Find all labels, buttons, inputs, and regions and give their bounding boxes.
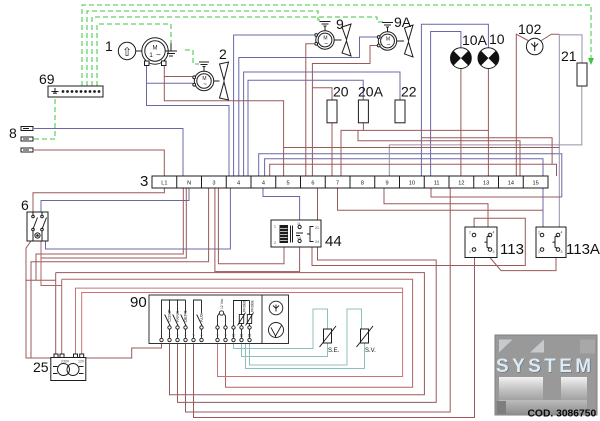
wire strip 4 up to heater 20A bbox=[248, 80, 363, 176]
svg-text:DEFR: DEFR bbox=[183, 311, 188, 322]
svg-text:3: 3 bbox=[561, 250, 563, 254]
fan blades motor 9 bbox=[334, 24, 351, 56]
wire strip 9 to relay 113 t4 bbox=[384, 188, 488, 233]
wire transformer 230N long run to board t9 bbox=[62, 279, 413, 387]
svg-text:L1: L1 bbox=[161, 181, 167, 187]
svg-text:2: 2 bbox=[274, 241, 276, 245]
svg-text:12: 12 bbox=[248, 334, 252, 338]
board contact circles bbox=[168, 326, 251, 329]
wire relay 113 t3 diagonal to 113A bbox=[490, 258, 556, 271]
board pad digits bbox=[161, 334, 252, 338]
svg-text:9A: 9A bbox=[394, 14, 412, 30]
svg-text:1: 1 bbox=[149, 52, 153, 59]
svg-text:2: 2 bbox=[538, 231, 540, 235]
wire strip 4b to relay 113 t4 bbox=[259, 154, 562, 197]
board bus comp fans defr bbox=[162, 300, 186, 338]
transformer 25 bbox=[51, 354, 86, 381]
blue wires bbox=[34, 24, 562, 249]
relay 113 bbox=[465, 227, 497, 258]
wire N drop left a bbox=[36, 188, 183, 280]
svg-text:10: 10 bbox=[409, 181, 415, 187]
svg-text:9: 9 bbox=[386, 181, 389, 187]
board bus aux bbox=[194, 300, 202, 338]
svg-text:~: ~ bbox=[203, 81, 207, 88]
wire lamp 10 top to strip 11 bbox=[421, 24, 488, 176]
terminal strip 3 bbox=[152, 176, 548, 188]
wire switch 6 left pole down to board 90 t1 bbox=[26, 241, 162, 358]
svg-text:8: 8 bbox=[217, 334, 219, 338]
arrow tip of ground wire right bbox=[588, 58, 594, 65]
svg-text:1: 1 bbox=[538, 250, 540, 254]
svg-text:69: 69 bbox=[39, 71, 55, 87]
wire ground bus 4 to motor 1 bbox=[97, 24, 171, 86]
svg-text:1: 1 bbox=[274, 225, 276, 229]
svg-text:12: 12 bbox=[458, 181, 464, 187]
ground symbol motor 9A bbox=[382, 23, 393, 33]
svg-text:12 Vac: 12 Vac bbox=[220, 298, 224, 309]
svg-text:21: 21 bbox=[561, 48, 577, 64]
svg-text:AUX: AUX bbox=[199, 313, 204, 322]
svg-text:4: 4 bbox=[237, 181, 240, 187]
wire strip 4 up to motor 9 bbox=[234, 35, 315, 176]
ground symbol motor 1 bbox=[165, 43, 182, 56]
wire L1 down to switch 6 bbox=[33, 188, 164, 212]
svg-text:3: 3 bbox=[493, 250, 495, 254]
svg-text:13: 13 bbox=[483, 181, 489, 187]
svg-text:20: 20 bbox=[333, 84, 349, 100]
wire strip 6 to board t3 bbox=[178, 188, 437, 402]
svg-text:4: 4 bbox=[185, 334, 187, 338]
wire strip 4b loop to 113A t3 bbox=[270, 164, 557, 176]
wire transformer 230L vertical bbox=[55, 273, 57, 354]
wire board t11 to probe SE bottom bbox=[242, 343, 328, 357]
resistor 21 bbox=[577, 63, 587, 86]
svg-text:5: 5 bbox=[193, 334, 195, 338]
wire switch 6 to terminal 4a bbox=[46, 176, 231, 249]
wire 8 to L1 bbox=[34, 150, 164, 176]
svg-text:COD. 3086750: COD. 3086750 bbox=[528, 409, 597, 420]
wire board t12 to probe SV top bbox=[250, 309, 362, 365]
wire transformer 12V b run bbox=[82, 293, 403, 355]
lamp 10A bbox=[451, 48, 472, 69]
svg-text:15: 15 bbox=[532, 181, 538, 187]
wire strip 4 up to motor 9A bbox=[239, 37, 377, 176]
teal wires bbox=[234, 309, 365, 369]
svg-text:4: 4 bbox=[561, 231, 563, 235]
svg-text:8: 8 bbox=[361, 181, 364, 187]
wire probe SV bottom return bbox=[246, 343, 365, 369]
svg-text:10: 10 bbox=[232, 334, 236, 338]
wire switch 6 right pole to transformer bbox=[41, 241, 62, 286]
svg-text:N: N bbox=[187, 181, 191, 187]
heater 20A bbox=[358, 100, 368, 123]
svg-text:⇧: ⇧ bbox=[122, 45, 132, 59]
fan blades motor 2 bbox=[214, 62, 229, 100]
svg-text:2: 2 bbox=[169, 334, 171, 338]
wire motor 9A return to strip 6 bbox=[312, 46, 377, 177]
svg-text:113A: 113A bbox=[566, 241, 600, 258]
svg-text:102: 102 bbox=[518, 21, 542, 37]
ground symbol motor 2 bbox=[199, 62, 209, 71]
svg-text:22: 22 bbox=[401, 84, 417, 100]
svg-text:3: 3 bbox=[177, 334, 179, 338]
relay 113A bbox=[536, 227, 566, 258]
svg-text:2: 2 bbox=[219, 46, 227, 62]
wire branch to transformer 230V L bbox=[26, 279, 56, 281]
wire strip 4b to relay 113 t2 bbox=[265, 159, 543, 233]
wire strip 12 to board t4 bbox=[186, 188, 451, 412]
ground symbol motor 9 bbox=[320, 22, 331, 32]
svg-text:~: ~ bbox=[156, 51, 161, 60]
wire heater net to strip 14 bbox=[358, 130, 520, 176]
board probe inputs bbox=[234, 301, 250, 327]
motor M9A bbox=[377, 32, 396, 50]
svg-text:10A: 10A bbox=[462, 32, 488, 48]
svg-text:COMP: COMP bbox=[167, 309, 172, 322]
svg-text:SYSTEM: SYSTEM bbox=[496, 356, 595, 377]
svg-text:90: 90 bbox=[130, 294, 147, 311]
svg-text:14: 14 bbox=[297, 236, 301, 240]
wire ground from connector 8 to bar 69 bbox=[34, 97, 55, 139]
logo SYSTEM 4 bbox=[495, 335, 597, 415]
svg-text:20A: 20A bbox=[358, 84, 384, 100]
wire ground bus 1 to arrow right bbox=[82, 5, 591, 86]
wire lamp 10A bottom to strip 12 bbox=[460, 69, 462, 177]
bright red wires bbox=[76, 288, 403, 376]
probe SV bbox=[357, 326, 374, 347]
svg-text:4: 4 bbox=[493, 231, 495, 235]
mid red wire t9 chain bbox=[41, 241, 413, 387]
svg-text:~: ~ bbox=[387, 42, 391, 49]
motor M1 bbox=[142, 38, 168, 66]
svg-text:10: 10 bbox=[489, 31, 505, 47]
wire relay 113 t1 to board t5 bbox=[194, 258, 475, 418]
heater 20 bbox=[327, 100, 337, 123]
wire ground link motor1 to motor2 bbox=[185, 50, 199, 64]
wire relay 44 to relay 113 t2 bbox=[312, 218, 525, 265]
svg-text:PROBE: PROBE bbox=[250, 299, 254, 312]
pump symbol left of motor 1 bbox=[118, 42, 142, 59]
svg-text:9: 9 bbox=[336, 16, 344, 32]
svg-text:5: 5 bbox=[287, 181, 290, 187]
wire strip 11 to 113A t4 bbox=[431, 188, 562, 197]
svg-text:1: 1 bbox=[469, 250, 471, 254]
wire heater 20 bottom to strip 7 bbox=[331, 123, 333, 176]
svg-text:2: 2 bbox=[469, 231, 471, 235]
svg-text:113: 113 bbox=[500, 241, 524, 258]
wire transformer 12V a to board t8 bbox=[76, 288, 403, 376]
svg-text:11: 11 bbox=[297, 222, 301, 226]
wire motor1 upper link to motor2 bbox=[164, 76, 193, 78]
probe SE bbox=[320, 326, 337, 347]
wire lamp 10 bottom to strip 13 bbox=[487, 69, 489, 177]
lamp 10 bbox=[478, 48, 499, 69]
motor M9 bbox=[315, 31, 334, 49]
wire N down to switch 6 bbox=[41, 188, 189, 212]
board pads bbox=[160, 338, 251, 341]
connector terminals 8 bbox=[21, 127, 33, 153]
relay 44 bbox=[271, 220, 321, 247]
svg-text:25: 25 bbox=[33, 359, 49, 375]
wire buzzer 102 right lead to strip 15 bbox=[541, 34, 559, 40]
ground net green dashed wires bbox=[34, 5, 591, 139]
svg-text:21: 21 bbox=[315, 226, 319, 230]
control board 90 bbox=[149, 295, 289, 344]
svg-text:6: 6 bbox=[201, 334, 203, 338]
wire heater 20A bottom to strip 7 bbox=[341, 123, 363, 176]
wire strip3 drop to left column bbox=[31, 188, 209, 358]
board relay coil 12Vac bbox=[218, 313, 226, 326]
board sensor icons bbox=[269, 301, 283, 315]
wire ground bus 3 to motor 9A bbox=[92, 17, 384, 86]
svg-text:3: 3 bbox=[212, 181, 215, 187]
earth bar 69 bbox=[48, 86, 103, 97]
strip cell labels bbox=[161, 181, 538, 187]
fan blades motor 9A bbox=[397, 25, 413, 57]
svg-text:7: 7 bbox=[336, 181, 339, 187]
wire strip3 to relay 44 mid bottom bbox=[215, 188, 300, 272]
gray-blue wires bbox=[389, 35, 582, 233]
svg-text:44: 44 bbox=[325, 233, 342, 250]
svg-text:1: 1 bbox=[161, 334, 163, 338]
board rotated labels bbox=[167, 298, 254, 322]
switch 6 bbox=[27, 212, 48, 241]
svg-text:4: 4 bbox=[262, 181, 265, 187]
wire N drop left b bbox=[41, 188, 186, 258]
wire strip 4b to relay 44 coil top bbox=[263, 188, 300, 220]
svg-text:11: 11 bbox=[240, 334, 244, 338]
wire strip3 to relay 44 coil bottom bbox=[218, 188, 284, 264]
svg-text:8: 8 bbox=[9, 125, 17, 141]
wire resistor 21 top to strip 10 bbox=[559, 35, 582, 233]
wire motor1 to motor2 lower bbox=[147, 82, 193, 84]
svg-text:6: 6 bbox=[21, 197, 29, 213]
wire board t10 to probe SE top bbox=[234, 309, 328, 349]
svg-text:6: 6 bbox=[311, 181, 314, 187]
wire transformer 230N vertical bbox=[61, 279, 63, 354]
svg-text:11: 11 bbox=[434, 181, 440, 187]
wire strip 4 up to heater 22 bbox=[244, 72, 400, 176]
svg-text:FANS: FANS bbox=[175, 311, 180, 322]
svg-text:S.E.: S.E. bbox=[328, 348, 340, 354]
wire heater 20 top joins bbox=[312, 88, 332, 100]
wire lamp 10 net cross link bbox=[421, 138, 552, 165]
svg-text:12V: 12V bbox=[78, 360, 85, 364]
wire branch to 113A t4 bbox=[284, 147, 560, 149]
buzzer 102 bbox=[526, 38, 543, 55]
wire 8 to N bbox=[34, 129, 183, 177]
svg-text:230V: 230V bbox=[61, 360, 70, 364]
svg-text:1: 1 bbox=[105, 38, 113, 54]
svg-text:9: 9 bbox=[225, 334, 227, 338]
wire ground bus 2 to motor 9 bbox=[87, 11, 323, 86]
svg-text:~: ~ bbox=[324, 41, 328, 48]
wire motor1 right to strip 5 bbox=[164, 64, 283, 176]
wire lamp 10A top to strip 11 bbox=[431, 32, 461, 177]
wire motor 9 return to strip 6 bbox=[306, 44, 314, 176]
svg-text:14: 14 bbox=[508, 181, 514, 187]
svg-text:PROBE: PROBE bbox=[242, 299, 246, 312]
wire motor 1 left to strip 4a bbox=[147, 64, 230, 176]
motor M2 bbox=[193, 71, 214, 90]
svg-text:S.V.: S.V. bbox=[365, 348, 376, 354]
wire long run to board t2 bbox=[56, 273, 425, 395]
wire strip 7 to relay 113A t2 bbox=[338, 188, 544, 210]
svg-text:3: 3 bbox=[140, 173, 148, 190]
svg-text:24: 24 bbox=[315, 240, 319, 244]
heater 22 bbox=[395, 100, 405, 123]
wire buzzer 102 left lead to strip 14 bbox=[516, 34, 528, 176]
wire 20A bottom run right to lamp 10 drop bbox=[363, 129, 488, 131]
